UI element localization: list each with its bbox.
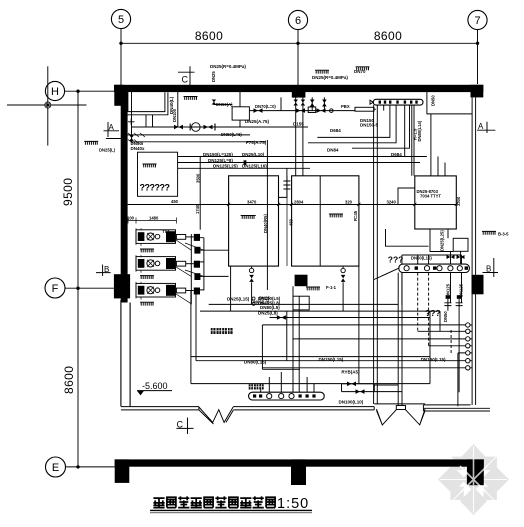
pump unit 3 (136, 282, 176, 300)
twin vent circles (252, 297, 255, 305)
drain hatch tank1 (241, 216, 257, 219)
top wall (114, 85, 483, 92)
E wall (115, 459, 484, 466)
elevation mark -5.600 (137, 381, 172, 395)
header drop pipes (308, 105, 414, 176)
svg-text:7: 7 (474, 15, 480, 27)
hatch between pumps (140, 249, 154, 252)
svg-text:DN50: DN50 (443, 311, 448, 322)
svg-text:DN84: DN84 (327, 148, 339, 153)
E wall mid column (291, 459, 306, 485)
svg-text:DN25: DN25 (259, 296, 270, 301)
svg-text:320: 320 (345, 199, 353, 204)
expansion tank (212, 92, 250, 127)
svg-text:3240: 3240 (387, 199, 397, 204)
E wall left column (115, 459, 130, 483)
svg-text:DN125(L=8): DN125(L=8) (208, 158, 233, 163)
pump branch diagonals (176, 240, 204, 304)
left wall (121, 92, 128, 303)
svg-text:DN80(L14): DN80(L14) (417, 120, 422, 141)
top-right corner column (471, 85, 484, 98)
left outside hatch (84, 141, 98, 144)
svg-text:DN25(A.75): DN25(A.75) (245, 119, 270, 124)
svg-text:RYB(A5): RYB(A5) (341, 370, 360, 375)
grid bubble 5 (111, 9, 130, 28)
small labels (99, 64, 509, 405)
svg-text:DN50(L15): DN50(L15) (411, 256, 432, 261)
south wall segment 1 (121, 407, 199, 410)
section mark C bottom (177, 418, 194, 435)
svg-text:D684: D684 (391, 152, 402, 157)
E wall right column (467, 459, 484, 485)
svg-text:DN80(L15): DN80(L15) (244, 360, 267, 365)
wall taps (281, 97, 324, 110)
grid line 7 (477, 30, 479, 84)
center riser (266, 140, 268, 290)
svg-text:DN25: DN25 (211, 71, 216, 82)
section mark B left (96, 265, 111, 277)
section mark B right (483, 258, 499, 277)
small inline box (308, 107, 316, 113)
black T fitting (295, 275, 308, 287)
double door head line (374, 403, 425, 405)
south wall segment 3 (423, 405, 490, 411)
pipe row y127 with pump (132, 123, 309, 132)
grid bubble F (45, 278, 65, 298)
svg-text:DN40(R5): DN40(R5) (263, 214, 268, 233)
svg-text:8600: 8600 (374, 29, 402, 43)
sub room partition (138, 152, 178, 196)
pipe row y135 (125, 134, 250, 136)
drain comb in sub room (143, 164, 157, 167)
svg-text:DN25(L10): DN25(L10) (242, 152, 265, 157)
svg-text:???: ??? (425, 308, 441, 318)
column below grid 6 (292, 92, 306, 98)
svg-text:DN150-5: DN150-5 (360, 123, 379, 128)
collector stubs up (402, 251, 462, 264)
svg-text:2804: 2804 (294, 199, 304, 204)
watermark white separators over corner (460, 459, 487, 492)
grid line E (66, 466, 115, 468)
svg-text:DN70(L=0): DN70(L=0) (255, 104, 276, 109)
pump 2 flex stub (176, 261, 200, 268)
valve on line 317 (277, 315, 286, 320)
bottom collector risers (261, 286, 314, 392)
pump branch lines (200, 238, 229, 290)
pump dimension (127, 216, 176, 224)
svg-text:DN125(L16): DN125(L16) (242, 164, 267, 169)
wall break symbol (199, 407, 233, 424)
connector verticals lower left (191, 266, 440, 384)
svg-text:DN40(L): DN40(L) (169, 96, 174, 114)
svg-text:3500: 3500 (196, 173, 201, 183)
long dimension line y204 (128, 199, 458, 206)
svg-text:B: B (486, 264, 491, 273)
svg-text:DN25(R=0.4MPa): DN25(R=0.4MPa) (210, 64, 246, 69)
bottom collector (249, 392, 325, 400)
section mark C top (178, 66, 195, 85)
section mark A left (104, 122, 121, 139)
box feeds (398, 114, 445, 205)
pipe row y142 (132, 141, 267, 143)
svg-text:5: 5 (118, 14, 124, 26)
svg-text:F-1-1: F-1-1 (326, 285, 337, 290)
label fenshuiqi (249, 384, 264, 389)
grid line H (65, 90, 115, 92)
grid line F (65, 287, 114, 289)
grid line 5 (120, 29, 122, 85)
partition line right (457, 353, 459, 406)
door center post (396, 406, 405, 410)
top header collector (370, 99, 423, 105)
right wall (472, 97, 476, 405)
pump unit 1 (136, 228, 176, 246)
small pump box right (453, 238, 468, 251)
svg-text:DN40x: DN40x (131, 146, 146, 151)
title pseudo-CJK (150, 496, 312, 513)
svg-text:DN150(L15): DN150(L15) (421, 357, 446, 362)
grid bubble E (46, 457, 66, 477)
svg-text:7034 TTYT: 7034 TTYT (420, 194, 441, 199)
svg-text:9500: 9500 (61, 178, 75, 206)
grid bubble 6 (288, 10, 307, 29)
platform top-left double rect (125, 92, 168, 127)
svg-text:DN150(L15): DN150(L15) (319, 357, 344, 362)
grid bubble 7 (468, 10, 487, 29)
watermark logo (438, 444, 509, 515)
survey marker near H (7, 66, 87, 145)
jog connector with valve (244, 160, 291, 197)
svg-text:DN100(L10): DN100(L10) (339, 400, 364, 405)
long bottom runs (191, 304, 466, 383)
tank2 bottom valve (341, 266, 346, 311)
svg-text:DN25(L8): DN25(L8) (258, 311, 278, 316)
left dimension line (61, 90, 80, 469)
right outside hatch (482, 231, 496, 234)
svg-text:??????: ?????? (140, 183, 170, 193)
top-left corner column (114, 85, 123, 106)
pump 1 flex stub (176, 234, 200, 241)
svg-text:R=1.5: R=1.5 (413, 128, 418, 140)
twin valve assembly below collector (444, 295, 462, 392)
svg-text:B-3-5: B-3-5 (498, 232, 509, 237)
pump unit 2 (136, 255, 176, 273)
vertical labels (169, 71, 463, 322)
svg-text:DN125: DN125 (446, 283, 451, 297)
svg-text:DN25(R=0.4MPa): DN25(R=0.4MPa) (312, 75, 348, 80)
pump 3 flex stub (176, 288, 200, 295)
svg-text:8600: 8600 (195, 29, 223, 43)
svg-text:450: 450 (289, 218, 294, 226)
south wall segment 2 (233, 407, 374, 410)
label kongtiaojifang (211, 328, 233, 334)
box DN25-87034 (415, 176, 461, 229)
collector drops (402, 273, 462, 305)
svg-text:-5.600: -5.600 (142, 381, 168, 391)
left wall riser (128, 92, 178, 142)
main pipe row y110 (249, 107, 376, 113)
svg-text:DN50(L=6): DN50(L=6) (221, 132, 242, 137)
top comb (315, 70, 329, 73)
svg-text:R=45: R=45 (353, 210, 358, 221)
svg-text:450: 450 (171, 199, 179, 204)
chiller tank 2 (292, 176, 359, 266)
svg-text:C: C (177, 419, 184, 429)
svg-text:D684: D684 (330, 128, 341, 133)
svg-text:1480: 1480 (149, 216, 159, 221)
svg-text:DN25(L25): DN25(L25) (440, 230, 445, 251)
svg-text:1:50: 1:50 (277, 496, 309, 512)
grid bubble H (45, 81, 64, 100)
section mark A right (477, 122, 495, 133)
supply headers to tanks (178, 157, 427, 169)
svg-text:H: H (51, 86, 59, 98)
svg-text:F75(A.75): F75(A.75) (246, 140, 267, 145)
main risers to door (374, 105, 378, 404)
svg-text:C: C (182, 75, 189, 85)
tank2 right edge extension (358, 266, 360, 384)
inter-pump valve blobs (194, 247, 200, 280)
box outlet piping (430, 229, 461, 264)
svg-text:E: E (52, 462, 59, 474)
svg-text:PBX: PBX (341, 104, 350, 109)
port circles column (466, 323, 473, 370)
drain hatch tank2 (329, 214, 343, 217)
inter tank dim (286, 176, 288, 266)
left wall lower (hollow) (121, 300, 130, 406)
svg-text:3300: 3300 (456, 196, 461, 206)
svg-text:8600: 8600 (62, 366, 76, 394)
pump manifold vertical (191, 157, 204, 305)
svg-text:3470: 3470 (247, 199, 257, 204)
bypass valves bottom (342, 382, 403, 394)
svg-text:DN70: DN70 (354, 69, 366, 74)
svg-text:DN125(L25): DN125(L25) (213, 164, 238, 169)
door leaf right (406, 409, 426, 425)
top dimension line (119, 29, 479, 45)
svg-text:DN125: DN125 (459, 283, 464, 297)
door leaf left (377, 409, 397, 425)
riser pair from grid6 (296, 98, 303, 176)
svg-text:F: F (52, 283, 59, 295)
svg-text:DN25(L): DN25(L) (99, 148, 116, 153)
svg-text:6: 6 (295, 15, 301, 27)
svg-text:DN150(L=125): DN150(L=125) (203, 152, 233, 157)
svg-text:???: ??? (388, 255, 404, 265)
column at F (114, 274, 130, 298)
svg-text:TTT: TTT (162, 229, 170, 234)
chiller tank 1 (229, 176, 279, 266)
svg-text:DN80(L5): DN80(L5) (260, 305, 280, 310)
risers to door center (398, 273, 402, 406)
svg-text:DN50(A): DN50(A) (216, 102, 233, 107)
svg-text:DN25(L15): DN25(L15) (227, 297, 250, 302)
grid line 6 (297, 30, 299, 85)
svg-text:1740: 1740 (195, 204, 200, 214)
tank1 bottom valve (249, 266, 254, 304)
cluster box above T (293, 296, 309, 310)
niche below top-right wall (427, 92, 472, 114)
column at B right (472, 275, 484, 295)
svg-text:DN50: DN50 (431, 95, 436, 106)
right collector (399, 264, 470, 272)
svg-text:D155: D155 (293, 122, 304, 127)
svg-text:A: A (478, 122, 484, 131)
vertical tap valves (293, 100, 326, 107)
